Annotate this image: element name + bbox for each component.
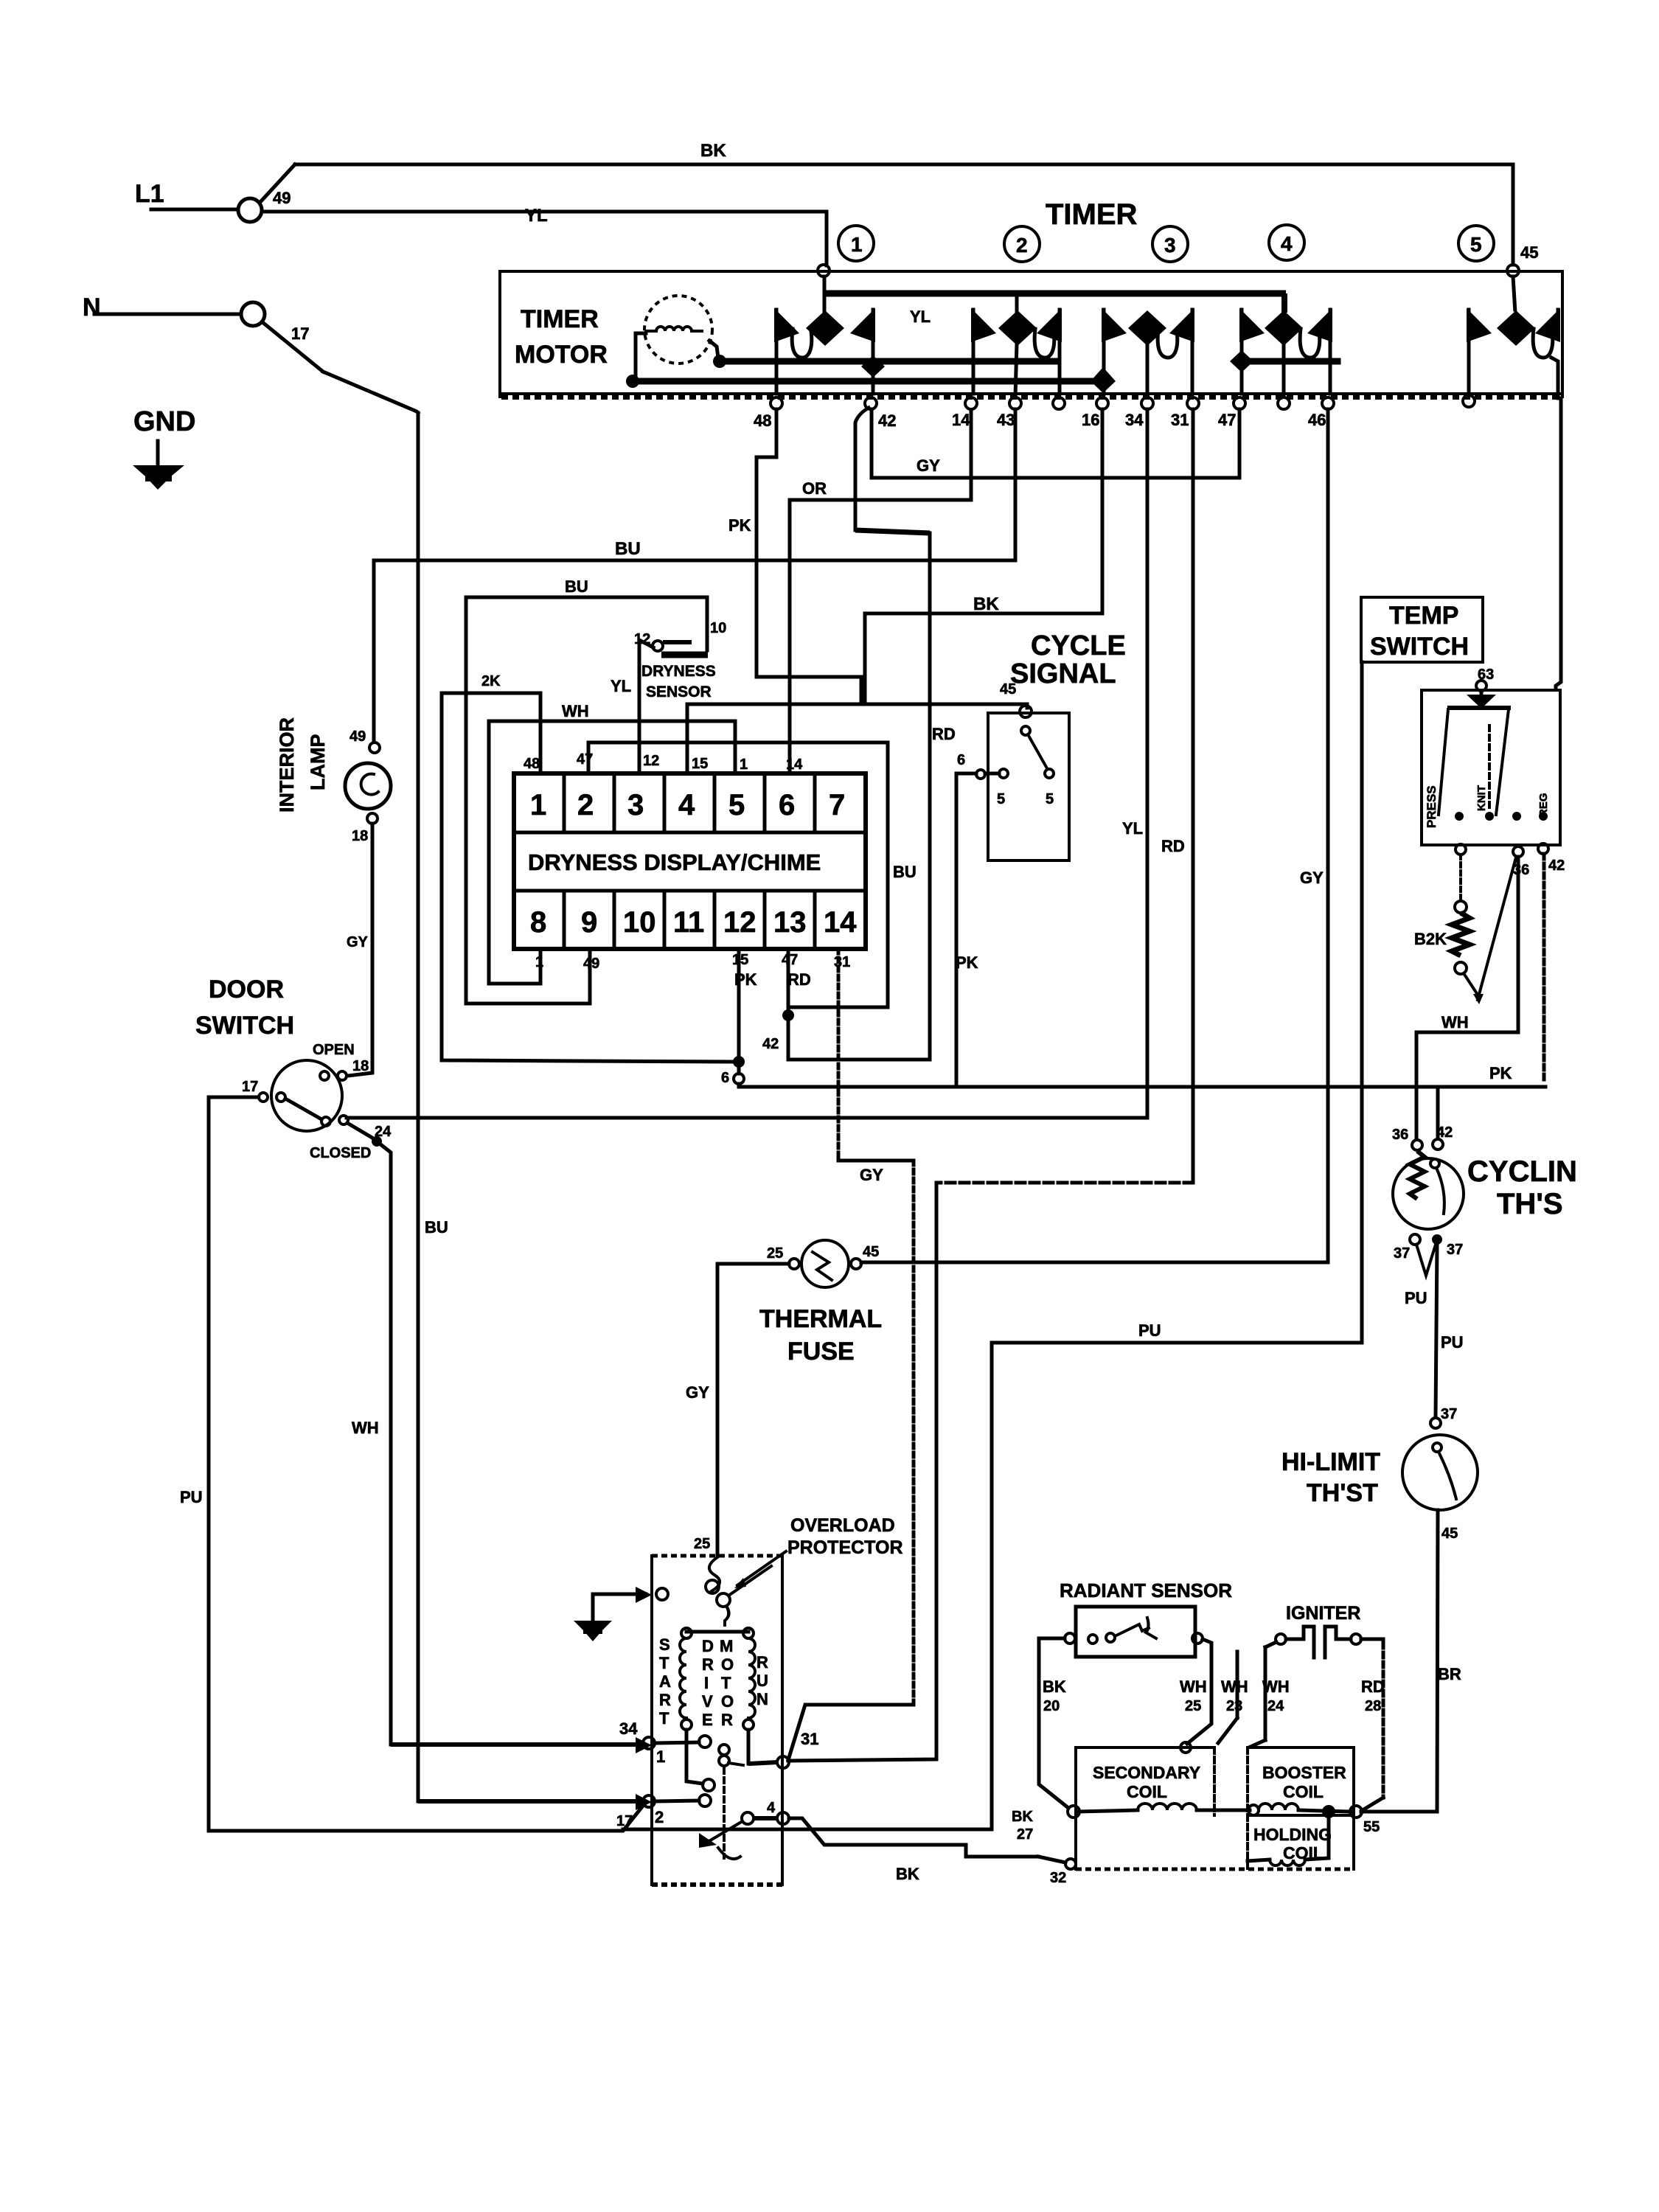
svg-text:GY: GY: [1300, 869, 1324, 887]
svg-text:TH'S: TH'S: [1497, 1188, 1563, 1220]
svg-text:14: 14: [786, 757, 803, 773]
wire overload to windings: [725, 1606, 729, 1625]
svg-text:9: 9: [581, 906, 597, 939]
contact1 left arm to 48: [775, 310, 779, 394]
terminal 34 on box edge: [636, 1737, 652, 1753]
wire WH loop to pin 5: [489, 721, 735, 984]
contact3 cup: [1158, 329, 1178, 358]
svg-text:GY: GY: [917, 456, 940, 475]
start bottom L wire: [686, 1730, 703, 1784]
igniter terminals: [1276, 1634, 1286, 1644]
terminal secondary top: [1180, 1742, 1191, 1753]
svg-text:6: 6: [957, 752, 965, 768]
cycling thermostat terminals: [1412, 1140, 1422, 1150]
wire RD terminal 31 down: [1192, 409, 1195, 1183]
contact3 right arm to 31: [1191, 310, 1194, 394]
svg-text:T: T: [659, 1709, 669, 1728]
contact5 cam diamond: [1497, 310, 1535, 346]
timer contact group 3: [1102, 308, 1194, 397]
coil assembly box: [1076, 1747, 1354, 1869]
temp selector cam dashed: [1488, 726, 1491, 811]
svg-text:27: 27: [1017, 1826, 1033, 1843]
wire YL terminal 34 down: [1146, 409, 1150, 1118]
svg-text:BK: BK: [700, 141, 726, 161]
dryness sensor element: [653, 641, 663, 651]
dryness display connector block: [514, 773, 866, 949]
svg-text:42: 42: [878, 411, 896, 430]
svg-text:2: 2: [577, 789, 594, 821]
svg-text:INTERIOR: INTERIOR: [276, 717, 298, 813]
wire WH door 24 down: [377, 1141, 391, 1745]
svg-text:WH: WH: [1262, 1677, 1290, 1696]
temp selector feed triangle: [1480, 691, 1484, 695]
svg-text:6: 6: [721, 1070, 729, 1086]
timer contact group 5: [1467, 308, 1560, 398]
wire GY dotted long drop: [912, 1161, 916, 1705]
timer cam circle 3: [1152, 226, 1188, 262]
wire L1 lead: [151, 208, 237, 212]
cycling thermostat lower left terminal: [1410, 1234, 1420, 1245]
wire thick motor line A to contact3: [633, 378, 1099, 385]
svg-text:25: 25: [694, 1536, 710, 1552]
contact4 right arm to 46: [1329, 310, 1332, 394]
wire PK from terminal 48: [757, 409, 861, 703]
svg-text:SIGNAL: SIGNAL: [1010, 658, 1116, 689]
wire PK main run: [739, 1084, 1545, 1087]
svg-text:DRYNESS DISPLAY/CHIME: DRYNESS DISPLAY/CHIME: [528, 849, 821, 875]
junction motor right: [713, 355, 726, 368]
wire BK top run: [295, 163, 1513, 167]
svg-text:DOOR: DOOR: [209, 975, 284, 1004]
svg-text:48: 48: [524, 756, 540, 772]
switch blade 17 from N: [262, 322, 323, 372]
svg-text:TIMER: TIMER: [521, 305, 599, 333]
terminal 14: [965, 397, 977, 409]
terminal 45 on timer top edge: [1507, 265, 1519, 276]
start winding top terminal: [681, 1628, 692, 1638]
wire door CLOSED to YL: [347, 1116, 1147, 1120]
secondary coil winding: [1079, 1810, 1138, 1812]
timer box outline: [500, 270, 1562, 273]
wire RD from terminal 42 jog: [855, 408, 869, 530]
switch blade 49 from L1: [260, 164, 295, 202]
svg-text:4: 4: [1281, 232, 1293, 255]
wire OR terminal 14 to connector pin 6: [790, 409, 971, 773]
svg-text:TIMER: TIMER: [1046, 198, 1138, 231]
terminal L1: [238, 198, 262, 222]
svg-text:BOOSTER: BOOSTER: [1262, 1763, 1346, 1782]
svg-text:10: 10: [710, 620, 726, 636]
svg-text:6: 6: [779, 789, 795, 821]
svg-text:3: 3: [1164, 234, 1176, 257]
svg-text:BK: BK: [973, 594, 999, 614]
wire PU temp switch loop: [623, 662, 1362, 1829]
wire GY thermal fuse left to motor: [717, 1264, 789, 1556]
svg-text:D: D: [702, 1637, 714, 1655]
temp switch selector box: [1422, 690, 1560, 845]
radiant sensor left terminal: [1065, 1633, 1075, 1644]
svg-text:14: 14: [824, 906, 857, 939]
contact2 cam diamond: [998, 310, 1037, 346]
svg-text:THERMAL: THERMAL: [759, 1305, 882, 1333]
svg-text:WH: WH: [562, 702, 589, 720]
svg-text:49: 49: [273, 189, 291, 207]
svg-text:GND: GND: [133, 406, 195, 437]
cycle signal box: [988, 713, 1069, 860]
booster right terminal: [1350, 1806, 1362, 1818]
wire RD dashed jog to x1270: [936, 1181, 1193, 1185]
svg-text:46: 46: [1308, 411, 1326, 429]
wire contact5 cup to temp switch: [1551, 358, 1558, 398]
contact2 cup: [1034, 329, 1054, 358]
wire 4 out right: [754, 1816, 777, 1820]
svg-text:5: 5: [1046, 791, 1054, 807]
svg-text:43: 43: [997, 411, 1015, 429]
svg-text:BK: BK: [1012, 1809, 1033, 1825]
svg-text:32: 32: [1050, 1870, 1066, 1886]
timer cam circle 1: [838, 226, 874, 261]
wire BK to secondary bottom corner: [1065, 1859, 1076, 1869]
terminal 49 lamp: [369, 742, 380, 753]
svg-text:U: U: [757, 1672, 768, 1690]
terminal 42: [865, 397, 877, 409]
wire BK drop to timer terminal 45: [1512, 164, 1515, 265]
svg-text:PU: PU: [180, 1488, 203, 1506]
run winding top terminal: [743, 1628, 754, 1638]
ground symbol: [156, 441, 160, 465]
contact3 left arm to 16: [1102, 310, 1106, 394]
svg-text:48: 48: [754, 411, 771, 430]
cycle signal top terminal: [1020, 706, 1032, 717]
connector row split lines: [514, 831, 866, 835]
wire pin 12 PK down: [737, 949, 741, 1057]
svg-text:10: 10: [623, 906, 656, 939]
svg-text:14: 14: [952, 411, 970, 429]
svg-text:N: N: [83, 293, 101, 321]
svg-text:N: N: [757, 1690, 768, 1708]
wire PK dashed temp 42 down: [1543, 854, 1546, 1084]
terminal N: [241, 302, 265, 326]
svg-text:GY: GY: [860, 1166, 883, 1184]
svg-text:2: 2: [1016, 234, 1028, 257]
radiant sensor blade: [1115, 1624, 1149, 1636]
wire pin 13 RD down: [787, 949, 790, 1060]
hi-limit top terminal: [1430, 1418, 1441, 1428]
cycling thermostat body: [1393, 1158, 1464, 1229]
svg-text:5: 5: [997, 791, 1005, 807]
contact1 cam diamond: [806, 310, 844, 346]
svg-text:1: 1: [535, 954, 543, 970]
svg-text:17: 17: [242, 1079, 258, 1095]
contact3 cam diamond: [1128, 310, 1166, 346]
svg-text:V: V: [702, 1692, 713, 1711]
door switch CLOSED contacts: [321, 1117, 330, 1126]
wire BU terminal 43 to lamp column: [374, 409, 1015, 742]
svg-text:BR: BR: [1438, 1665, 1461, 1683]
svg-text:RD: RD: [787, 970, 811, 989]
temp selector right blade: [1496, 709, 1509, 815]
svg-text:15: 15: [732, 952, 748, 968]
wire 31 out right: [748, 1762, 777, 1764]
junction diamond on line B: [861, 355, 885, 378]
svg-text:37: 37: [1447, 1242, 1463, 1258]
connector top row cell dividers: [563, 773, 566, 832]
timer cam circle 2: [1004, 226, 1040, 262]
wire GY46 to thermal fuse: [861, 1261, 1328, 1265]
contact5 right arm: [1557, 310, 1560, 330]
wire dotted 45 to contact 5: [1513, 276, 1515, 313]
cycling thermostat inner contact: [1430, 1159, 1439, 1168]
svg-text:37: 37: [1441, 1406, 1457, 1422]
svg-text:37: 37: [1394, 1245, 1410, 1262]
radiant sensor box: [1076, 1607, 1195, 1657]
terminal secondary coil left: [1068, 1806, 1079, 1818]
svg-text:BU: BU: [425, 1218, 448, 1237]
svg-text:7: 7: [829, 789, 845, 821]
svg-text:BU: BU: [565, 577, 588, 596]
thermal fuse element: [813, 1252, 832, 1280]
radiant sensor contacts: [1088, 1635, 1097, 1644]
terminal below pin12: [737, 1068, 741, 1074]
svg-text:47: 47: [1218, 411, 1236, 429]
contact 4: [742, 1812, 754, 1824]
wire pin 14 GY dotted down: [837, 949, 841, 1161]
timer cam circle 4: [1269, 225, 1304, 260]
wire thick motor line B: [720, 358, 1056, 365]
cycle signal blade: [1028, 734, 1047, 768]
svg-text:YL: YL: [910, 307, 931, 326]
timer motor left lead: [636, 333, 646, 378]
terminal 2 on box edge: [636, 1794, 652, 1810]
door switch pole contacts: [259, 1093, 268, 1102]
wire WH 25 radiant right down: [1187, 1639, 1211, 1744]
svg-text:COIL: COIL: [1283, 1782, 1324, 1801]
terminal 31: [1187, 397, 1199, 409]
svg-text:47: 47: [577, 751, 593, 768]
start winding coil: [680, 1638, 686, 1718]
holding coil winding: [1327, 1818, 1331, 1855]
svg-text:42: 42: [1548, 858, 1565, 874]
wire thick timer bus YL: [824, 291, 1286, 297]
terminal above B2K: [1455, 901, 1467, 913]
svg-text:T: T: [721, 1674, 731, 1692]
timer box bottom scalloped edge: [500, 392, 1561, 395]
contact4 left arm to 47: [1240, 310, 1244, 394]
wire BU loop to pin 9: [466, 597, 707, 1004]
svg-text:CYCLE: CYCLE: [1031, 630, 1126, 661]
svg-text:SENSOR: SENSOR: [646, 684, 712, 700]
svg-text:GY: GY: [686, 1383, 709, 1402]
svg-text:49: 49: [349, 728, 366, 745]
cam dashed line: [723, 1768, 726, 1858]
contact4 cam diamond: [1265, 310, 1303, 346]
svg-text:20: 20: [1043, 1698, 1060, 1714]
overload blade: [728, 1566, 771, 1596]
wire BK motor 4 to coils: [789, 1818, 1038, 1857]
svg-text:45: 45: [1000, 681, 1016, 698]
terminal 18 lamp bottom: [367, 813, 378, 824]
svg-text:I: I: [704, 1674, 709, 1692]
speed switch contacts: [719, 1745, 729, 1755]
svg-text:5: 5: [1470, 233, 1482, 256]
terminal spare B: [1278, 397, 1290, 409]
run winding bottom terminal: [743, 1719, 754, 1730]
svg-text:GY: GY: [347, 934, 369, 950]
svg-text:18: 18: [352, 828, 368, 844]
svg-text:E: E: [702, 1711, 713, 1729]
svg-text:5: 5: [728, 789, 745, 821]
svg-text:17: 17: [616, 1813, 633, 1829]
svg-text:PK: PK: [734, 970, 757, 989]
svg-text:25: 25: [767, 1245, 783, 1262]
cycling blade V: [1416, 1245, 1436, 1276]
svg-text:11: 11: [673, 906, 704, 939]
svg-text:O: O: [721, 1692, 734, 1711]
wire 2K net pin1: [442, 693, 733, 1062]
wire WH 24 dotted igniter left: [1265, 1642, 1276, 1647]
door switch blade to CLOSED: [285, 1099, 321, 1119]
wire B2K branch dotted: [1459, 855, 1462, 902]
wire 34 to speed contact: [655, 1742, 699, 1743]
svg-text:RD: RD: [1361, 1677, 1385, 1696]
timer motor right lead: [709, 341, 718, 358]
junction pin13: [782, 1009, 794, 1021]
wire YL from L1 switch: [262, 212, 827, 265]
svg-text:34: 34: [1125, 411, 1144, 429]
svg-text:55: 55: [1363, 1819, 1380, 1835]
svg-text:WH: WH: [1441, 1013, 1469, 1032]
svg-text:RD: RD: [1161, 837, 1185, 855]
svg-text:47: 47: [782, 952, 798, 968]
blade B2K to apex: [1464, 973, 1479, 997]
terminal spare A: [1053, 397, 1065, 409]
apex mark: [1473, 994, 1484, 1004]
svg-text:WH: WH: [1221, 1677, 1248, 1696]
svg-text:31: 31: [801, 1730, 818, 1748]
junction 24: [372, 1136, 382, 1147]
svg-text:R: R: [702, 1655, 714, 1674]
wire RD thick jog: [855, 530, 930, 533]
svg-text:FUSE: FUSE: [787, 1338, 855, 1366]
svg-text:45: 45: [1520, 243, 1538, 262]
wire BK radiant left down: [1039, 1638, 1068, 1808]
svg-text:34: 34: [619, 1719, 638, 1738]
svg-text:B2K: B2K: [1414, 930, 1447, 948]
terminal 49 on timer top edge: [818, 265, 829, 276]
svg-text:COIL: COIL: [1127, 1782, 1167, 1801]
junction motor left: [626, 375, 639, 388]
cycling thermostat heater coil: [1410, 1151, 1425, 1199]
svg-text:13: 13: [773, 906, 807, 939]
svg-text:SECONDARY: SECONDARY: [1093, 1763, 1200, 1782]
wire WH temp 36 down: [1416, 857, 1518, 1138]
svg-text:BK: BK: [896, 1865, 919, 1883]
wire 2 to contact: [655, 1801, 699, 1801]
svg-text:36: 36: [1392, 1127, 1408, 1143]
svg-text:42: 42: [762, 1036, 779, 1052]
contact5 cup: [1533, 329, 1553, 358]
timer contact group 4: [1230, 293, 1338, 397]
terminal 47: [1234, 397, 1245, 409]
terminal 34: [1141, 397, 1153, 409]
blade 4 down-left: [708, 1821, 742, 1842]
door switch OPEN contacts: [320, 1071, 329, 1080]
interior lamp: [345, 763, 391, 809]
wire WH to motor 34: [391, 1742, 637, 1747]
timer cam circle 5: [1458, 226, 1494, 261]
terminal 63: [1476, 681, 1486, 691]
cycling thermostat blade: [1436, 1168, 1444, 1214]
svg-text:4: 4: [767, 1800, 776, 1816]
svg-text:PRESS: PRESS: [1425, 785, 1439, 828]
connector bottom row cell dividers: [563, 891, 566, 949]
wire RD down right of connector: [788, 533, 930, 1060]
wire BU to motor 2: [418, 1799, 637, 1804]
terminal 46: [1322, 397, 1334, 409]
winding top bar: [686, 1630, 748, 1634]
svg-text:24: 24: [375, 1124, 392, 1140]
svg-text:PU: PU: [1405, 1289, 1427, 1307]
svg-text:1: 1: [656, 1747, 665, 1766]
svg-text:OPEN: OPEN: [313, 1042, 355, 1058]
contact1 right arm to 42: [872, 310, 875, 394]
ground symbol motor: [591, 1594, 595, 1621]
wire 47 net pin2 riser and right loop: [588, 742, 888, 1015]
wire GY terminal 46 down: [861, 409, 1328, 1262]
svg-text:16: 16: [1082, 411, 1099, 429]
timer motor M1 dashed circle: [644, 296, 712, 364]
wire GY to motor 31: [788, 1705, 914, 1760]
terminal 43: [1009, 397, 1021, 409]
thermal fuse terminals: [789, 1259, 799, 1269]
door switch circle: [271, 1060, 342, 1131]
svg-text:M: M: [720, 1637, 733, 1655]
svg-text:LAMP: LAMP: [307, 734, 329, 791]
svg-text:YL: YL: [1122, 819, 1143, 838]
cycle signal right contact: [1045, 769, 1054, 778]
wire PK cycle signal 6 out: [956, 773, 976, 1087]
overload contacts: [706, 1580, 719, 1593]
terminal below B2K: [1455, 962, 1467, 974]
svg-text:TH'ST: TH'ST: [1307, 1479, 1378, 1507]
temp selector left blade: [1439, 709, 1448, 815]
svg-text:DRYNESS: DRYNESS: [641, 663, 716, 680]
wire BU column down: [417, 413, 420, 1801]
svg-text:RADIANT SENSOR: RADIANT SENSOR: [1060, 1579, 1232, 1601]
cycle signal left contacts: [976, 770, 985, 779]
contact2 left arm to 14: [972, 310, 975, 394]
hi-limit inner contact: [1433, 1443, 1441, 1452]
overload leader line: [737, 1551, 786, 1585]
junction diamond contact4 left: [1230, 350, 1253, 372]
booster coil winding: [1248, 1805, 1259, 1815]
svg-text:2K: 2K: [481, 673, 501, 689]
contact4 thick bar: [1242, 358, 1338, 365]
wire 49 into timer bus: [823, 276, 827, 293]
wire WH 23 dotted: [1236, 1652, 1239, 1718]
svg-text:YL: YL: [611, 677, 631, 695]
svg-text:31: 31: [1171, 411, 1189, 429]
svg-text:BK: BK: [1043, 1677, 1066, 1696]
svg-text:R: R: [757, 1653, 768, 1672]
wire 45 drop to connector pin 4: [686, 704, 689, 773]
wire 17 into door switch: [209, 1096, 257, 1099]
svg-text:25: 25: [1185, 1698, 1201, 1714]
svg-text:31: 31: [834, 954, 850, 970]
svg-text:1: 1: [851, 233, 863, 256]
hi-limit thermostat body: [1402, 1435, 1478, 1510]
svg-text:23: 23: [1226, 1698, 1242, 1714]
